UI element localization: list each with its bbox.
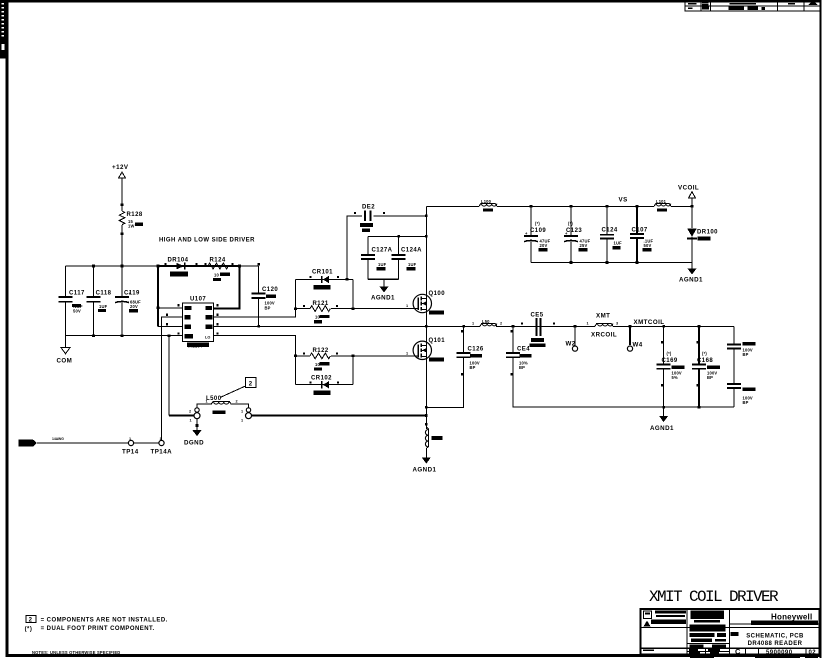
U107 pin number ticks (166, 304, 218, 334)
svg-text:BP: BP (470, 365, 476, 370)
resistor R124 (205, 258, 234, 282)
right bar CR101 R121 (352, 279, 354, 308)
wire TP14A up to U107 pin2 (162, 317, 183, 440)
svg-text:AGND1: AGND1 (371, 295, 395, 302)
svg-text:1: 1 (472, 321, 474, 325)
svg-text:C127A: C127A (372, 248, 393, 254)
svg-text:20V: 20V (130, 304, 138, 309)
svg-text:C169: C169 (662, 358, 678, 364)
DRIVER (157, 238, 445, 447)
net flag DGND left (19, 437, 65, 447)
jumper circles W1 (241, 408, 252, 423)
svg-text:C124A: C124A (401, 248, 422, 254)
svg-text:VCOIL: VCOIL (678, 185, 699, 192)
svg-text:(*): (*) (25, 626, 33, 632)
capacitor C120 (252, 263, 279, 326)
main vertical drain source line (425, 206, 427, 415)
transistor Q101 (413, 338, 445, 361)
svg-text:CE5: CE5 (531, 313, 544, 319)
capacitor C123 (564, 206, 591, 262)
svg-text:AGND1: AGND1 (679, 277, 703, 284)
svg-text:BP: BP (707, 375, 713, 380)
wire R128 to rail (121, 225, 123, 266)
svg-text:SCHEMATIC, PCB: SCHEMATIC, PCB (746, 634, 804, 640)
wire gate Q101 (353, 355, 414, 357)
svg-text:Q101: Q101 (429, 338, 446, 344)
notes (25, 616, 168, 655)
wire top rail COM caps (66, 265, 158, 267)
diode CR102 (296, 375, 354, 395)
capacitor CE4 (506, 326, 532, 407)
svg-text:+: + (525, 231, 528, 236)
inductor L100 (479, 199, 497, 212)
wire flag to TP14A (37, 442, 162, 444)
svg-text:2: 2 (249, 382, 253, 388)
svg-text:50V: 50V (644, 243, 652, 248)
wire U107 pin4 COM junction drop (168, 336, 170, 416)
svg-text:C126: C126 (468, 347, 484, 353)
svg-text:1: 1 (190, 419, 192, 423)
svg-text:1UF: 1UF (378, 262, 387, 267)
svg-text:C168: C168 (697, 358, 713, 364)
thick bus left segment (169, 414, 194, 416)
svg-text:C123: C123 (566, 228, 582, 234)
inductor L101 (654, 199, 671, 212)
svg-text:XMIT COIL DRIVER: XMIT COIL DRIVER (649, 588, 779, 606)
thick bar rail to pins 1,3 (157, 266, 159, 326)
jumper W2 (566, 326, 578, 351)
TOPSEC (426, 185, 718, 284)
svg-text:(*): (*) (702, 351, 707, 356)
right bar R122 CR102 (352, 356, 354, 385)
ground AGND1 under C127A (371, 279, 395, 301)
+12V power symbol (112, 164, 129, 178)
wire U107 pin5 LO to low gate network (214, 336, 296, 385)
svg-text:1UF: 1UF (614, 241, 623, 246)
svg-text:R121: R121 (313, 301, 329, 307)
ground COM (57, 336, 73, 365)
capacitor C118 (87, 266, 112, 336)
not installed flag box 2 (220, 378, 256, 398)
node dots top rail (92, 265, 95, 268)
svg-text:C117: C117 (69, 291, 85, 297)
svg-text:1: 1 (206, 400, 208, 404)
svg-text:L50: L50 (482, 319, 490, 324)
svg-text:1: 1 (241, 419, 243, 423)
svg-text:DR4088 READER: DR4088 READER (748, 641, 803, 647)
svg-text:(*): (*) (535, 221, 540, 226)
LEFTSEC (19, 164, 241, 456)
svg-text:DR100: DR100 (697, 230, 718, 236)
svg-text:+12V: +12V (112, 164, 129, 171)
jumper circles W3 (189, 408, 200, 423)
svg-text:1UF: 1UF (99, 304, 108, 309)
svg-text:1UF: 1UF (408, 262, 417, 267)
MIDSEC (214, 205, 735, 474)
svg-text:AGND1: AGND1 (650, 425, 674, 432)
svg-text:2: 2 (500, 321, 502, 325)
svg-text:2: 2 (236, 400, 238, 404)
wire cap bank bottom rail (531, 262, 692, 264)
node dots VS row (257, 325, 260, 328)
svg-text:BP: BP (743, 352, 749, 357)
diode CR101 (296, 270, 354, 290)
inductor XRCOIL (587, 313, 619, 339)
svg-text:W4: W4 (633, 342, 643, 349)
svg-text:1: 1 (406, 304, 408, 308)
svg-text:DR104: DR104 (168, 258, 189, 264)
capacitor C126 (426, 326, 484, 407)
svg-text:DE2: DE2 (362, 205, 375, 211)
capacitor C168 (692, 326, 720, 407)
wire U107 pin1 (158, 307, 183, 309)
svg-text:= DUAL FOOT PRINT COMPONENT.: = DUAL FOOT PRINT COMPONENT. (41, 626, 155, 632)
power VCOIL (678, 185, 699, 229)
svg-text:W2: W2 (566, 341, 576, 348)
capacitor C169 (657, 326, 685, 407)
svg-text:AGND1: AGND1 (413, 467, 437, 474)
svg-text:LO: LO (205, 335, 210, 339)
svg-text:R128: R128 (127, 212, 143, 218)
U107 IC body (183, 297, 214, 349)
svg-text:XMTCOIL: XMTCOIL (634, 319, 665, 326)
svg-text:CE4: CE4 (517, 347, 530, 353)
bottom strip smudges (643, 649, 818, 658)
test point TP14A (151, 437, 173, 456)
svg-text:NOTES: UNLESS OTHERWISE SPECIF: NOTES: UNLESS OTHERWISE SPECIFIED (32, 650, 120, 655)
svg-text:+: + (565, 231, 568, 236)
svg-text:BP: BP (265, 306, 271, 311)
wire VB drop to U107 pin8 (214, 266, 240, 309)
capacitor C124 (600, 206, 622, 262)
svg-text:COM: COM (57, 358, 73, 365)
svg-text:CR102: CR102 (311, 375, 332, 381)
svg-text:C: C (735, 647, 741, 656)
inductor L500 (197, 396, 249, 414)
capacitor DE2 (346, 205, 427, 281)
svg-text:XMT: XMT (596, 313, 610, 320)
svg-text:C109: C109 (530, 228, 546, 234)
svg-text:1: 1 (129, 437, 131, 441)
capacitor C124A (392, 235, 423, 279)
svg-text:50V: 50V (73, 309, 81, 314)
svg-text:C124: C124 (602, 228, 618, 234)
capacitor C107 (630, 206, 653, 262)
svg-text:25V: 25V (580, 243, 588, 248)
svg-text:1W: 1W (128, 224, 135, 229)
svg-text:Honeywell: Honeywell (771, 613, 812, 622)
svg-text:BP: BP (743, 400, 749, 405)
svg-text:14AWG: 14AWG (52, 437, 64, 441)
svg-text:1: 1 (241, 410, 243, 414)
thick bus right segment (252, 414, 427, 416)
capacitor C119 (115, 266, 141, 336)
capacitor C117 (59, 266, 86, 336)
svg-text:3: 3 (616, 321, 618, 325)
svg-text:+: + (129, 291, 132, 296)
transistor Q100 (413, 291, 445, 314)
wire gate Q100 (353, 308, 414, 310)
svg-text:XRCOIL: XRCOIL (591, 332, 617, 339)
wire C127A C124A bottom rail (368, 278, 399, 280)
resistor R121 (296, 301, 354, 324)
svg-text:U107: U107 (190, 297, 206, 303)
inductor L50 (472, 319, 502, 327)
capacitor pair right column (727, 326, 756, 407)
svg-text:5%: 5% (672, 375, 678, 380)
title block frame (641, 609, 820, 655)
capacitor C127A (361, 236, 426, 279)
revision table (685, 1, 821, 11)
svg-text:DGND: DGND (20, 441, 32, 446)
svg-text:1: 1 (406, 351, 408, 355)
svg-text:TP14: TP14 (122, 449, 139, 456)
ground AGND1 xmit (650, 407, 674, 432)
svg-text:C120: C120 (262, 287, 278, 293)
svg-text:= COMPONENTS ARE NOT INSTALLED: = COMPONENTS ARE NOT INSTALLED. (41, 617, 168, 623)
wire VS switch node row (214, 325, 481, 327)
wire U107 pin3 (158, 325, 183, 327)
jumper W4 (627, 326, 642, 351)
svg-text:10: 10 (214, 273, 219, 278)
TITLEBLK (641, 588, 820, 658)
ground DGND (184, 419, 204, 447)
svg-text:L101: L101 (656, 199, 667, 204)
resistor R122 (296, 348, 354, 371)
svg-text:DGND: DGND (184, 440, 204, 447)
svg-text:HIGH AND LOW SIDE DRIVER: HIGH AND LOW SIDE DRIVER (159, 238, 255, 244)
svg-text:R122: R122 (313, 348, 329, 354)
wire rail to C120 (240, 265, 259, 267)
svg-text:(*): (*) (568, 221, 573, 226)
doc number strip (0, 0, 6, 59)
svg-text:VS: VS (619, 197, 628, 204)
wire U107 pin7 HO to gate network (214, 279, 296, 317)
svg-text:2: 2 (29, 618, 33, 624)
test point TP14 (122, 437, 139, 456)
diode DR100 (687, 229, 718, 263)
approval area smudges (644, 611, 687, 627)
diode DR104 (165, 258, 198, 277)
svg-text:1: 1 (587, 321, 589, 325)
border frame (6, 0, 821, 2)
wire VS supply top rail (426, 205, 479, 207)
svg-text:Q100: Q100 (429, 291, 446, 297)
spark gap CE5 (521, 313, 555, 348)
svg-text:2: 2 (189, 410, 191, 414)
svg-text:L500: L500 (206, 396, 222, 402)
wire bottom COM rail (66, 335, 183, 337)
resistor R128 (119, 211, 143, 229)
ferrite bead to AGND1 (413, 416, 443, 474)
svg-text:L100: L100 (481, 199, 492, 204)
svg-text:C118: C118 (96, 291, 112, 297)
svg-text:(*): (*) (667, 351, 672, 356)
svg-text:BP: BP (519, 365, 525, 370)
wire xmit bottom rail (513, 406, 734, 408)
U107 pin labels (185, 306, 213, 340)
wire +12V to R128 (121, 178, 123, 211)
logo area smudges (689, 611, 726, 655)
svg-text:R124: R124 (210, 258, 226, 264)
svg-text:5900090: 5900090 (766, 650, 793, 656)
XMITSEC (472, 313, 756, 433)
svg-text:02: 02 (809, 650, 817, 656)
svg-text:TP14A: TP14A (151, 449, 173, 456)
svg-text:20V: 20V (540, 243, 548, 248)
svg-text:CR101: CR101 (312, 270, 333, 276)
svg-text:C119: C119 (124, 291, 140, 297)
ground AGND1 right (679, 263, 703, 284)
svg-text:C107: C107 (632, 228, 648, 234)
capacitor C109 (524, 206, 551, 262)
